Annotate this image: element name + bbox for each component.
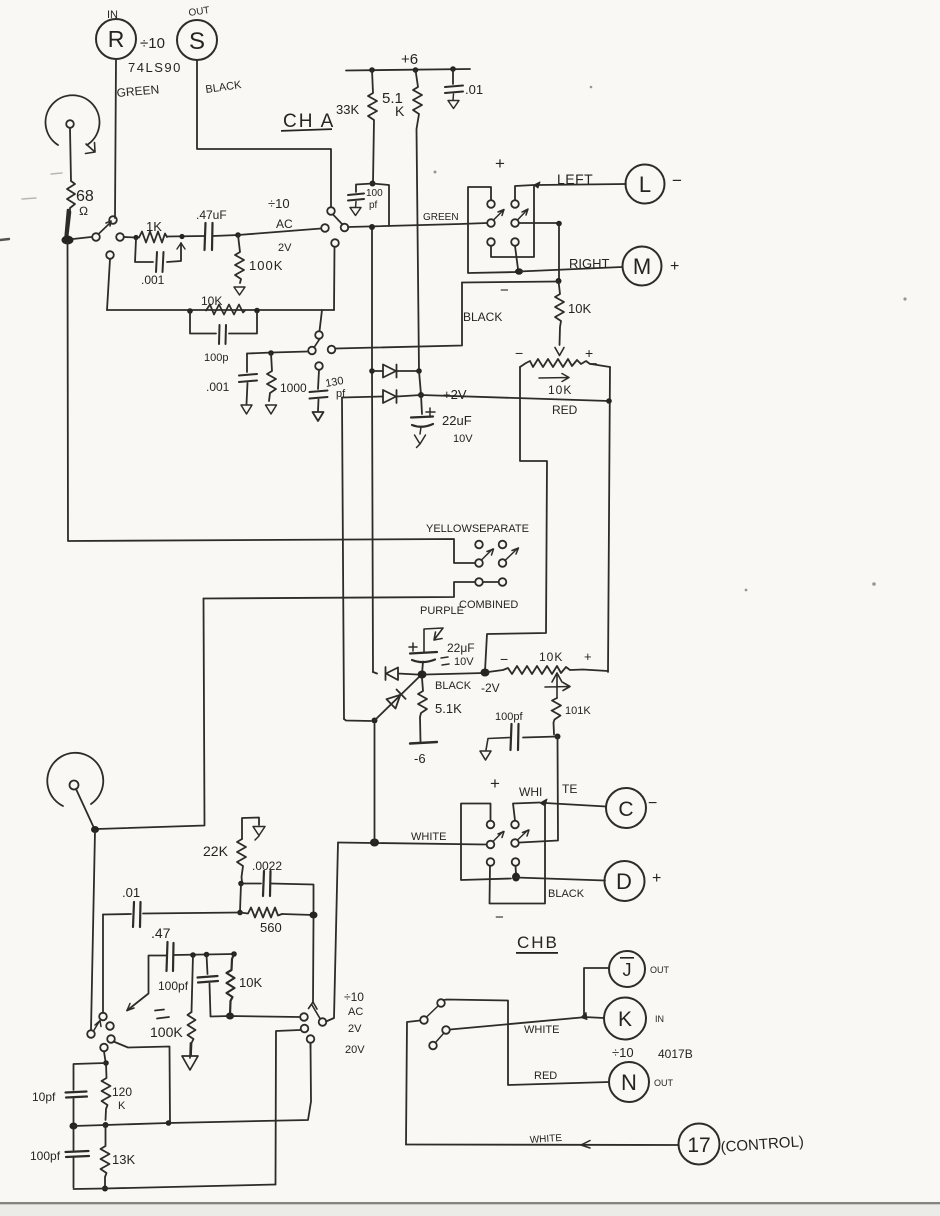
potentiometer P2 lever to node	[76, 789, 94, 828]
svg-text:K: K	[395, 103, 405, 119]
svg-text:100pf: 100pf	[158, 979, 189, 993]
resistor 100K CHB lead	[192, 955, 194, 1012]
wire divider mid	[74, 1123, 169, 1126]
paper speck	[903, 297, 906, 300]
junction	[103, 1122, 109, 1128]
LM switch contacts	[487, 200, 495, 208]
LM switch levers	[494, 209, 529, 220]
selector left lever	[94, 1021, 102, 1032]
svg-text:+: +	[584, 649, 592, 664]
wire white junction down rail	[374, 724, 376, 843]
wire contact D bracket	[114, 1042, 171, 1123]
svg-text:74LS90: 74LS90	[128, 60, 182, 75]
svg-text:+: +	[490, 774, 500, 793]
svg-text:÷10: ÷10	[140, 35, 165, 52]
svg-text:L: L	[639, 172, 651, 197]
junction diode row	[369, 368, 375, 374]
wire to range switch	[211, 1016, 300, 1017]
junction	[179, 234, 184, 239]
junction WHITE	[370, 839, 379, 847]
wire BLACK to D	[516, 878, 605, 881]
connector J	[609, 951, 645, 987]
svg-text:22K: 22K	[203, 843, 229, 859]
junction	[268, 350, 274, 356]
potentiometer P2 terminal	[70, 781, 79, 790]
wire YELLOW row from node A	[68, 243, 476, 563]
junction 22K bottom	[238, 881, 244, 887]
paper speck	[434, 171, 437, 174]
wire .01 left corner down	[102, 915, 104, 1014]
svg-text:BLACK: BLACK	[435, 680, 472, 692]
yellow switch levers	[482, 548, 519, 561]
capacitor .001 plates	[156, 252, 164, 272]
CD switch contacts	[487, 821, 495, 829]
svg-text:+6: +6	[401, 51, 418, 68]
capacitor .001 lower lead	[247, 383, 248, 404]
wire pot to 68 ohm	[70, 129, 71, 181]
svg-text:100K: 100K	[150, 1024, 183, 1040]
svg-text:RED: RED	[552, 403, 578, 417]
LM switch bottom right stub	[515, 246, 518, 269]
capacitor 100pf bracket	[356, 184, 373, 193]
svg-text:17: 17	[687, 1134, 710, 1157]
LM switch right stub to LEFT wire	[515, 185, 534, 200]
capacitor 22uF CHA lead	[421, 395, 422, 414]
svg-text:TE: TE	[562, 782, 577, 796]
capacitor 10pf lower lead	[73, 1099, 75, 1126]
junction on green wire	[369, 224, 375, 230]
svg-text:100pf: 100pf	[30, 1149, 61, 1163]
svg-text:1K: 1K	[146, 219, 162, 234]
svg-text:COMBINED: COMBINED	[459, 599, 518, 611]
capacitor .47 left wire	[127, 956, 166, 1011]
junction 101K bottom	[555, 734, 561, 740]
junction node B	[235, 232, 241, 238]
switch SW2 AC: contacts	[321, 224, 329, 232]
pot RED left frame down to -2V node	[485, 367, 547, 671]
svg-text:100K: 100K	[249, 258, 283, 273]
svg-text:+2V: +2V	[443, 387, 467, 402]
yellow switch contacts	[475, 559, 483, 567]
svg-text:PURPLE: PURPLE	[420, 605, 464, 617]
capacitor 100pf CHB wire	[523, 737, 558, 738]
junction	[450, 66, 456, 72]
wire LEFT	[538, 184, 626, 185]
svg-text:pf: pf	[336, 388, 346, 400]
svg-text:10V: 10V	[454, 656, 474, 668]
svg-text:2V: 2V	[348, 1023, 362, 1035]
svg-text:K: K	[118, 1100, 126, 1112]
wire +2V to red pot rail	[421, 395, 609, 401]
wire 100pf bracket right	[373, 184, 390, 227]
capacitor 22uF CHB minus	[441, 657, 449, 665]
resistor 100K to ground	[235, 235, 244, 283]
junction	[70, 1123, 78, 1130]
svg-text:J: J	[623, 960, 632, 980]
wire corner down left diode rail	[342, 398, 344, 720]
resistor 22K	[237, 839, 246, 882]
svg-text:D: D	[616, 869, 632, 894]
svg-text:100: 100	[366, 188, 383, 199]
junction arrow LEFT wire	[534, 182, 540, 188]
paper speck	[590, 86, 593, 89]
capacitor 100pf CHB plates	[511, 724, 519, 750]
svg-text:.47: .47	[151, 925, 171, 941]
capacitor 130pf plates	[310, 391, 328, 399]
svg-text:1000: 1000	[280, 381, 307, 395]
svg-text:−: −	[648, 795, 657, 812]
svg-text:+: +	[652, 870, 661, 887]
svg-text:C: C	[618, 798, 633, 821]
junction	[556, 278, 562, 284]
svg-text:560: 560	[260, 920, 282, 935]
capacitor .0022 wire	[241, 884, 314, 914]
capacitor .01 CHB wire right	[143, 913, 240, 914]
svg-text:120: 120	[112, 1085, 132, 1099]
stray smudge	[22, 173, 62, 199]
ground bar -6	[410, 742, 437, 744]
junction +2V	[418, 392, 424, 398]
capacitor .47uF plates	[205, 223, 213, 250]
svg-text:AC: AC	[276, 217, 293, 231]
resistor 13K	[101, 1125, 110, 1187]
wire 2V feedback	[276, 1030, 301, 1185]
CD switch bottom right stub	[515, 866, 518, 874]
wire mid contact to 10K node	[519, 222, 557, 224]
svg-text:.47uF: .47uF	[196, 208, 227, 222]
svg-text:.01: .01	[122, 885, 140, 900]
junction 33K bottom	[370, 181, 376, 187]
junction 560 node	[310, 912, 318, 919]
capacitor .01 CHB plates	[133, 902, 141, 927]
LM switch bottom cross stub	[491, 186, 534, 257]
svg-text:OUT: OUT	[654, 1078, 674, 1088]
svg-text:13K: 13K	[112, 1152, 135, 1167]
ground arrow 1000	[266, 405, 277, 414]
svg-text:CHB: CHB	[517, 933, 559, 952]
wire 68 ohm to node A (thick)	[66, 210, 71, 238]
wire WHITE K	[450, 1018, 581, 1030]
svg-text:+: +	[585, 345, 593, 361]
capacitor 100pf CHB2 plates	[198, 976, 219, 983]
junction red rail	[606, 398, 612, 404]
diode D3	[373, 667, 417, 680]
capacitor 22uF CHB plus	[409, 643, 417, 651]
capacitor 22uF CHA plus mark	[426, 408, 435, 417]
svg-text:2V: 2V	[278, 242, 292, 254]
svg-text:10K: 10K	[548, 383, 572, 397]
svg-text:4017B: 4017B	[658, 1047, 693, 1061]
underline CH B	[516, 952, 558, 954]
junction pot B node	[91, 826, 99, 833]
wire SW1 low contact to feedback line	[107, 259, 110, 310]
capacitor 100pf CHB left lead + ground arrow	[480, 738, 510, 761]
svg-text:WHI: WHI	[519, 785, 542, 799]
capacitor .01 CHB wire left	[103, 913, 131, 916]
resistor 100K CHB	[188, 1012, 196, 1055]
potentiometer P1 body	[46, 95, 100, 145]
connector S	[177, 20, 217, 60]
wire white corner down to range switch	[326, 843, 338, 1022]
resistor 10K below M	[555, 281, 564, 345]
paper speck	[872, 582, 876, 586]
svg-text:Ω: Ω	[79, 204, 88, 218]
svg-text:IN: IN	[655, 1014, 664, 1024]
capacitor 130pf lower lead + ground arrow	[313, 400, 324, 422]
svg-text:WHITE: WHITE	[529, 1133, 562, 1146]
capacitor 10pf plates	[66, 1092, 88, 1098]
svg-text:10K: 10K	[568, 301, 591, 316]
selector left contacts	[87, 1030, 95, 1038]
wire 1K to cap	[167, 235, 204, 238]
svg-text:.001: .001	[141, 273, 165, 287]
connector L	[626, 165, 665, 204]
svg-text:101K: 101K	[565, 705, 591, 717]
svg-text:÷10: ÷10	[612, 1045, 634, 1060]
capacitor 22uF CHA plates	[411, 417, 433, 427]
svg-text:100p: 100p	[204, 352, 228, 364]
wire BLACK vertical	[336, 283, 463, 349]
junction D wire	[512, 873, 520, 882]
svg-text:-2V: -2V	[481, 681, 500, 695]
wire pot B down to selector	[91, 831, 95, 1030]
junction	[166, 1120, 172, 1126]
junction	[102, 1186, 108, 1192]
underline CH A	[281, 128, 332, 132]
wire WHITE to C	[545, 803, 606, 807]
svg-text:WHITE: WHITE	[411, 831, 446, 843]
diode D1	[372, 365, 419, 378]
resistor 5.1K CHB	[418, 678, 427, 742]
junction M wire	[515, 268, 523, 274]
svg-text:OUT: OUT	[650, 965, 670, 975]
svg-text:÷10: ÷10	[268, 196, 290, 211]
potentiometer 10K RED track	[520, 359, 596, 367]
junction -2V left	[418, 671, 427, 679]
junction	[231, 951, 237, 957]
wire J/N loop	[444, 1000, 610, 1086]
resistor 10K feedback	[206, 305, 245, 315]
purple switch contacts	[475, 578, 483, 586]
junction	[190, 952, 196, 958]
long wire node GREEN down to diodes	[372, 227, 373, 672]
svg-text:N: N	[621, 1070, 637, 1095]
+6 rail	[346, 69, 470, 71]
wire node to 100pf and 10K	[204, 953, 234, 956]
svg-text:5.1K: 5.1K	[435, 701, 462, 716]
potentiometer P2 body CHB	[47, 753, 103, 806]
ground arrow .01	[448, 94, 459, 109]
arrowhead .47 diagonal	[127, 1004, 134, 1011]
potentiometer 10K CHB track	[488, 666, 608, 674]
resistor 5.1K	[413, 70, 422, 371]
junction	[369, 67, 375, 73]
junction	[416, 368, 422, 374]
wire PURPLE row	[204, 582, 476, 599]
junction	[556, 221, 562, 227]
svg-text:10K: 10K	[239, 975, 262, 990]
svg-text:÷10: ÷10	[344, 990, 364, 1004]
CD switch top right stub	[513, 803, 540, 821]
wire 20V contact stub	[310, 1043, 312, 1048]
purple switch link	[483, 581, 499, 583]
svg-text:K: K	[618, 1008, 632, 1031]
resistor 33K	[368, 70, 377, 183]
capacitor 100pf CHB2 lower lead	[210, 984, 211, 1017]
switch SW1 lever	[99, 221, 112, 234]
diode D2	[342, 390, 421, 403]
wire divider bottom	[74, 1185, 276, 1190]
range switch feed from 560 node	[312, 919, 315, 1003]
svg-text:+: +	[495, 154, 505, 173]
svg-text:−: −	[672, 171, 682, 190]
wire cap to node B	[213, 235, 238, 236]
ground arrow 22uF CHA	[415, 427, 426, 448]
junction lower left rail	[372, 718, 378, 724]
svg-text:M: M	[633, 254, 651, 279]
wire K switch left bracket	[406, 1021, 420, 1145]
wire J stub	[584, 968, 609, 1016]
connector K	[604, 998, 646, 1040]
arrow 100K CHB	[182, 1043, 198, 1070]
svg-text:YELLOWSEPARATE: YELLOWSEPARATE	[426, 523, 529, 535]
junction	[413, 67, 419, 73]
svg-text:.0022: .0022	[252, 859, 282, 873]
svg-text:+: +	[670, 258, 679, 275]
wire BLACK minus	[462, 282, 559, 283]
wire -2V horizontal	[426, 673, 484, 675]
capacitor 22uF CHB bracket arrow	[424, 628, 443, 652]
svg-text:AC: AC	[348, 1006, 363, 1018]
potentiometer P1 arrow	[86, 143, 96, 154]
svg-text:100pf: 100pf	[495, 711, 523, 723]
capacitor 130pf lead	[318, 370, 319, 389]
junction 10K bottom	[226, 1013, 234, 1020]
potentiometer P1 terminal	[66, 120, 74, 128]
connector N	[609, 1062, 649, 1102]
svg-text:IN: IN	[107, 9, 118, 21]
capacitor 100pf CHB2 lead	[207, 955, 208, 975]
ground arrow 100pf	[350, 202, 361, 216]
svg-text:−: −	[515, 345, 523, 361]
connector M	[623, 247, 662, 286]
CD switch levers	[493, 830, 529, 842]
wire node B to AC switch	[238, 229, 321, 236]
CD switch cross link	[490, 803, 546, 904]
wire SW1 to 1K	[124, 236, 136, 239]
svg-text:-6: -6	[414, 751, 426, 766]
svg-text:BLACK: BLACK	[548, 888, 585, 900]
svg-text:22uF: 22uF	[442, 413, 472, 428]
junction	[254, 308, 260, 314]
wire contact E to divider	[104, 1052, 106, 1062]
wire S to AC switch	[197, 60, 331, 207]
junction	[187, 308, 193, 314]
wire RIGHT	[519, 267, 622, 272]
svg-text:10K: 10K	[539, 650, 563, 664]
wire 101K node down to CD switch	[520, 737, 558, 843]
paper speck	[745, 589, 748, 592]
capacitor .01 plates	[445, 86, 463, 94]
connector 17	[679, 1124, 720, 1165]
svg-text:R: R	[108, 26, 125, 52]
resistor 120K	[102, 1063, 111, 1120]
resistor 560	[240, 908, 282, 918]
wire to K	[584, 1017, 604, 1018]
svg-text:.01: .01	[465, 82, 483, 97]
CD switch box left	[461, 804, 511, 881]
svg-text:10K: 10K	[201, 294, 222, 308]
svg-text:−: −	[495, 909, 504, 926]
wire SW3 top to feedback line	[320, 310, 323, 331]
junction	[204, 952, 210, 958]
wire PURPLE down to pot B	[97, 599, 205, 830]
junction	[133, 235, 138, 240]
bypass capacitor .001 loop	[135, 239, 181, 262]
resistor 68 ohm	[67, 181, 75, 214]
connector R	[96, 19, 136, 59]
diode D4 diagonal	[375, 677, 420, 721]
wire mid to 20V contact	[169, 1043, 312, 1123]
capacitor 100p plates	[219, 325, 226, 344]
svg-text:S: S	[189, 28, 205, 55]
arrowhead onto pot RED	[555, 348, 564, 356]
capacitor 100pf divider leads	[73, 1129, 75, 1188]
capacitor 100pf divider plates	[66, 1151, 90, 1157]
capacitor 22uF CHB plates	[410, 652, 437, 662]
resistor 10K CHB	[227, 954, 235, 1015]
switch SW1 input select: contacts	[92, 233, 100, 241]
pot RED right frame down	[608, 367, 610, 672]
switch SW3 lever	[314, 339, 320, 348]
wire R to switch	[115, 59, 116, 218]
arrowhead 17 wire	[581, 1141, 590, 1149]
wire 560 to node	[282, 914, 314, 915]
range switch contacts	[300, 1013, 308, 1021]
wire 17 control	[406, 1144, 678, 1147]
capacitor 100pf plates	[348, 194, 364, 201]
svg-text:BLACK: BLACK	[463, 310, 502, 324]
svg-text:10pf: 10pf	[32, 1090, 56, 1104]
junction -2V	[481, 669, 490, 677]
svg-text:−: −	[500, 282, 509, 299]
resistor 1000	[267, 353, 276, 401]
ground arrow 100K	[234, 287, 245, 295]
wire down to 10K	[558, 224, 560, 282]
wire 22K node down	[240, 884, 241, 912]
svg-text:LEFT: LEFT	[557, 171, 593, 187]
switch SW2 lever	[333, 215, 343, 225]
arrowhead on bypass loop	[177, 243, 185, 249]
potentiometer 10K CHB wiper	[545, 673, 570, 698]
ground arrow .001	[241, 405, 252, 414]
svg-text:20V: 20V	[345, 1044, 365, 1056]
svg-text:WHITE: WHITE	[524, 1024, 559, 1036]
capacitor .0022 plates	[263, 871, 271, 896]
junction C wire	[540, 799, 547, 806]
capacitor .47 right wire	[174, 954, 204, 957]
junction divider top	[103, 1060, 109, 1066]
svg-text:.001: .001	[206, 380, 230, 394]
LM switch box left	[468, 187, 517, 273]
junction node A	[62, 236, 74, 245]
wire corner to junction	[344, 719, 371, 721]
K switch contacts	[437, 999, 445, 1007]
K switch levers	[427, 1007, 444, 1043]
svg-text:33K: 33K	[336, 102, 359, 117]
capacitor .001 plates	[239, 374, 257, 382]
svg-text:−: −	[500, 651, 508, 667]
